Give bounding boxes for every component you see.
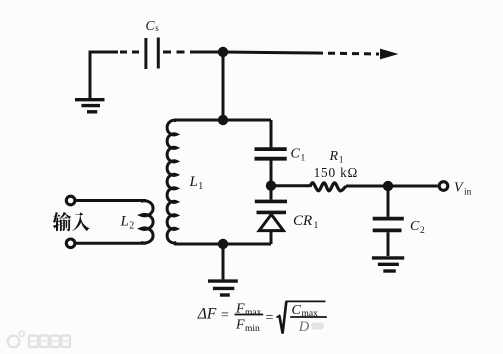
svg-text:=: = bbox=[266, 310, 274, 325]
svg-text:2: 2 bbox=[420, 226, 425, 236]
svg-text:2: 2 bbox=[129, 221, 134, 232]
svg-text:s: s bbox=[155, 23, 159, 33]
svg-text:L: L bbox=[120, 214, 129, 230]
svg-text:R: R bbox=[329, 149, 339, 164]
svg-text:C: C bbox=[146, 18, 156, 33]
svg-text:F: F bbox=[235, 317, 245, 332]
svg-text:C: C bbox=[410, 219, 420, 234]
svg-text:1: 1 bbox=[301, 154, 306, 164]
svg-text:max: max bbox=[245, 308, 262, 318]
svg-text:1: 1 bbox=[314, 220, 319, 231]
svg-text:C: C bbox=[292, 303, 302, 318]
svg-text:min: min bbox=[245, 324, 260, 334]
svg-text:CR: CR bbox=[293, 213, 312, 229]
svg-text:ΔF: ΔF bbox=[197, 306, 217, 323]
svg-text:C: C bbox=[291, 147, 301, 162]
svg-text:150 kΩ: 150 kΩ bbox=[314, 165, 359, 180]
svg-text:L: L bbox=[189, 174, 198, 190]
svg-text:in: in bbox=[464, 188, 472, 198]
svg-text:D: D bbox=[298, 319, 310, 335]
svg-text:V: V bbox=[454, 181, 464, 196]
svg-text:1: 1 bbox=[198, 181, 203, 192]
svg-text:=: = bbox=[221, 308, 229, 323]
